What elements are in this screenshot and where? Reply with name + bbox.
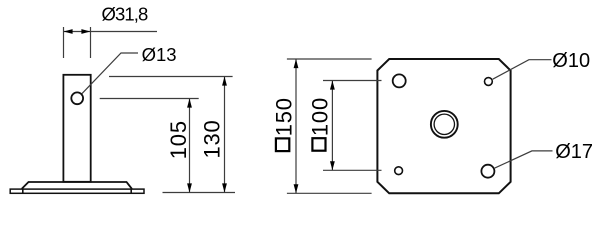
svg-text:Ø10: Ø10 bbox=[552, 50, 590, 72]
dimension 105: dimension line bbox=[189, 99, 191, 193]
left view: hole Ø13 in tube bbox=[71, 92, 83, 104]
left view: post tube body bbox=[63, 75, 90, 182]
dimension 105: arrow bottom bbox=[187, 183, 192, 192]
dimension Ø31,8: arrow right bbox=[81, 29, 90, 34]
dimension square150: extension line top bbox=[287, 58, 372, 60]
dimension 130: arrow top bbox=[222, 77, 227, 86]
dimension square150: arrow bottom bbox=[294, 184, 299, 193]
dimension square100: label square symbol bbox=[312, 138, 325, 151]
svg-text:100: 100 bbox=[307, 97, 332, 136]
dimension 130: arrow bottom bbox=[222, 183, 227, 192]
dimension square100: arrow bottom bbox=[330, 161, 335, 170]
dimension square150: arrow top bbox=[294, 59, 299, 68]
dimension square150: extension line bottom bbox=[287, 192, 372, 194]
left view: base plate bend line left bbox=[22, 189, 24, 194]
leader line Ø10 bbox=[493, 60, 552, 79]
svg-text:150: 150 bbox=[272, 97, 297, 136]
right view: hole bottom-right Ø17 bbox=[481, 165, 494, 178]
dimension 105: arrow top bbox=[187, 99, 192, 108]
left view: base plate bend line right bbox=[130, 189, 132, 194]
leader line Ø13 bbox=[82, 53, 138, 94]
right view: center tube inner circle bbox=[434, 114, 454, 134]
dimension square150: dimension line bbox=[295, 59, 297, 193]
right view: base plate octagon outline bbox=[377, 59, 510, 193]
svg-text:130: 130 bbox=[199, 119, 224, 158]
svg-text:Ø17: Ø17 bbox=[555, 141, 593, 163]
left view: base plate strip (side) bbox=[10, 189, 144, 193]
extension line from tube top bbox=[109, 76, 233, 78]
extension line from hole center bbox=[100, 98, 199, 100]
right view: hole bottom-left Ø10 bbox=[395, 167, 403, 175]
leader line Ø17 bbox=[495, 151, 553, 168]
right view: hole top-right Ø10 bbox=[485, 78, 493, 86]
extension line from base bottom bbox=[163, 192, 236, 194]
dimension Ø31,8: dimension line bbox=[64, 31, 158, 33]
dimension square150: label square symbol bbox=[276, 138, 289, 151]
dimension square100: extension line top bbox=[323, 80, 382, 82]
dimension Ø31,8: extension line left bbox=[63, 27, 65, 58]
dimension Ø31,8: arrow left bbox=[64, 29, 73, 34]
dimension square100: dimension line bbox=[331, 81, 333, 171]
dimension square100: extension line bottom bbox=[323, 169, 382, 171]
right view: hole top-left Ø17 bbox=[393, 74, 406, 87]
svg-text:Ø31,8: Ø31,8 bbox=[102, 3, 149, 24]
svg-text:Ø13: Ø13 bbox=[142, 44, 177, 65]
left view: pressed cover plate (side) bbox=[22, 182, 132, 189]
dimension 130: dimension line bbox=[224, 77, 226, 193]
dimension Ø31,8: extension line right bbox=[90, 27, 92, 58]
right view: center tube outer circle bbox=[431, 111, 458, 138]
dimension square100: arrow top bbox=[330, 81, 335, 90]
svg-text:105: 105 bbox=[166, 120, 191, 159]
